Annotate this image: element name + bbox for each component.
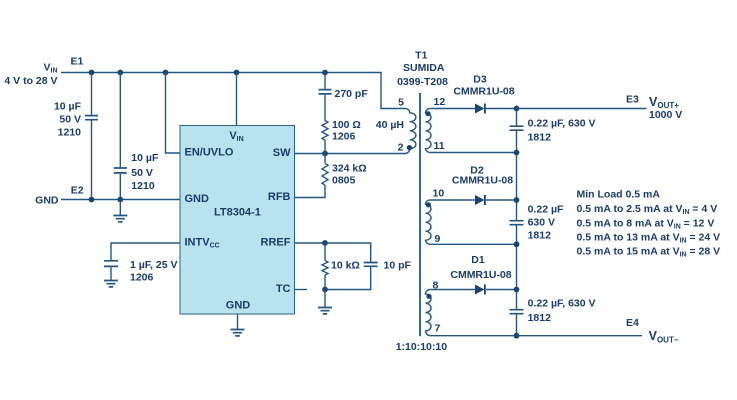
wire RFB <box>295 185 326 198</box>
svg-text:1812: 1812 <box>528 230 552 242</box>
diode D3 <box>475 104 485 114</box>
ground symbol below GND rail <box>113 200 127 222</box>
wire D1 to rail <box>486 289 517 291</box>
svg-text:TC: TC <box>276 283 291 295</box>
diode D2 <box>475 195 485 205</box>
wire: GND rail <box>61 199 180 201</box>
svg-text:0.22 µF: 0.22 µF <box>528 204 564 216</box>
svg-text:0.5 mA to 2.5 mA at VIN = 4 V: 0.5 mA to 2.5 mA at VIN = 4 V <box>577 203 718 216</box>
diode D1 <box>475 285 485 295</box>
S3 phase dot <box>425 111 430 116</box>
wire VIN pin drop <box>236 73 238 126</box>
wire pin9 to rail <box>430 243 516 245</box>
wire 10pF branch <box>325 243 371 290</box>
svg-text:1 µF, 25 V: 1 µF, 25 V <box>130 259 178 271</box>
junction dot RREF top <box>322 240 328 246</box>
svg-text:10 µF: 10 µF <box>54 101 82 113</box>
wire EN/UVLO from rail <box>166 73 181 154</box>
wire SW node down <box>324 154 326 164</box>
primary phase dot <box>407 145 412 150</box>
svg-text:D1: D1 <box>471 254 485 266</box>
junction dot E4 <box>514 333 520 339</box>
S1 phase dot <box>426 294 431 299</box>
capacitor C1 plates <box>85 116 98 120</box>
svg-text:D3: D3 <box>473 73 487 85</box>
svg-text:100 Ω: 100 Ω <box>332 119 361 131</box>
S2 phase dot <box>426 202 431 207</box>
wire: VIN top rail <box>61 73 405 109</box>
wire INTVCC <box>111 243 180 260</box>
svg-text:0.5 mA to 15 mA at VIN = 28 V: 0.5 mA to 15 mA at VIN = 28 V <box>577 246 721 259</box>
svg-text:0.5 mA to 13 mA at VIN = 24 V: 0.5 mA to 13 mA at VIN = 24 V <box>577 232 721 245</box>
wire SW to transformer <box>295 153 406 155</box>
junction dot RREF bottom <box>322 287 328 293</box>
svg-text:RFB: RFB <box>268 191 291 203</box>
output stack rail <box>516 109 518 336</box>
svg-text:1210: 1210 <box>131 180 155 192</box>
svg-text:RREF: RREF <box>261 237 291 249</box>
svg-text:T1: T1 <box>415 50 427 62</box>
svg-text:VOUT+: VOUT+ <box>649 95 679 110</box>
junction dot pin11 <box>514 150 520 156</box>
junction dot E3 <box>514 106 520 112</box>
secondary winding S1 (pins 8/7) <box>425 290 431 336</box>
junction dot D2 <box>514 197 520 203</box>
junction dot rail/EN <box>163 70 169 76</box>
svg-text:10 pF: 10 pF <box>384 260 412 272</box>
svg-text:CMMR1U-08: CMMR1U-08 <box>453 86 514 98</box>
svg-text:11: 11 <box>434 140 445 152</box>
svg-text:CMMR1U-08: CMMR1U-08 <box>452 174 513 186</box>
junction dot gnd/C1 <box>89 197 95 203</box>
svg-text:1812: 1812 <box>528 312 552 324</box>
wire TC stub <box>295 289 308 291</box>
svg-text:5: 5 <box>398 97 404 109</box>
svg-text:0.5 mA to 8 mA at VIN = 12 V: 0.5 mA to 8 mA at VIN = 12 V <box>577 218 715 231</box>
primary winding <box>405 109 416 154</box>
svg-text:7: 7 <box>435 323 441 335</box>
svg-text:1206: 1206 <box>332 131 356 143</box>
wire RREF node down <box>324 243 326 261</box>
resistor 100 ohm zigzag <box>322 121 328 141</box>
svg-text:630 V: 630 V <box>528 217 555 229</box>
svg-text:1210: 1210 <box>58 127 82 139</box>
wire snubber top <box>324 73 326 89</box>
svg-text:CMMR1U-08: CMMR1U-08 <box>450 269 511 281</box>
svg-text:1000 V: 1000 V <box>649 109 682 121</box>
svg-text:SUMIDA: SUMIDA <box>403 62 445 74</box>
wire resistor to SW node <box>324 140 326 153</box>
wire RREF <box>295 242 326 244</box>
capacitor C1 10uF wires <box>91 73 93 200</box>
svg-text:10 µF: 10 µF <box>131 152 159 164</box>
capacitor C3 0.22uF plates <box>510 126 524 130</box>
secondary winding S2 (pins 10/9) <box>426 200 432 244</box>
capacitor C2 10uF wires <box>119 73 121 200</box>
wire pin12 to D3 <box>430 108 475 110</box>
svg-text:LT8304-1: LT8304-1 <box>214 207 261 219</box>
junction dot pin9 <box>514 241 520 247</box>
svg-text:E3: E3 <box>626 94 639 106</box>
wire pin7 to rail <box>430 335 516 337</box>
junction dot D1 <box>514 287 520 293</box>
svg-text:VOUT−: VOUT− <box>649 329 679 344</box>
secondary winding S3 (pins 12/11) <box>426 109 432 153</box>
svg-text:50 V: 50 V <box>59 114 81 126</box>
wire pin11 to rail <box>430 152 516 154</box>
resistor 10k zigzag <box>322 261 328 276</box>
junction dot rail/C2 <box>117 70 123 76</box>
svg-text:Min Load 0.5 mA: Min Load 0.5 mA <box>577 189 661 201</box>
op-amp U1 LT8304-1 body <box>180 126 295 315</box>
junction dot gnd/C2 <box>117 197 123 203</box>
resistor 324k zigzag <box>322 164 328 185</box>
svg-text:4 V to 28 V: 4 V to 28 V <box>4 75 57 87</box>
capacitor 10pF plates <box>364 263 378 267</box>
capacitor C1s 0.22uF plates <box>510 310 524 314</box>
capacitor C2s 0.22uF plates <box>510 221 524 225</box>
svg-text:SW: SW <box>273 147 291 159</box>
wire D2 to rail <box>486 199 517 201</box>
svg-text:0399-T208: 0399-T208 <box>397 76 448 88</box>
svg-text:VIN: VIN <box>43 62 57 75</box>
svg-text:270 pF: 270 pF <box>335 88 369 100</box>
junction dot rail/VIN pin <box>234 70 240 76</box>
svg-text:2: 2 <box>398 142 404 154</box>
capacitor C2 plates <box>114 168 127 173</box>
svg-text:324 kΩ: 324 kΩ <box>332 163 367 175</box>
wire D3 to rail <box>486 108 517 110</box>
svg-text:GND: GND <box>185 193 210 205</box>
capacitor 1uF plates <box>104 261 118 267</box>
svg-text:GND: GND <box>226 300 251 312</box>
wire cap to resistor <box>324 95 326 121</box>
wire pin10 to D2 <box>430 199 475 201</box>
transformer core <box>419 93 421 336</box>
svg-text:10 kΩ: 10 kΩ <box>331 260 360 272</box>
svg-text:E2: E2 <box>71 185 84 197</box>
ground symbol RREF <box>318 290 332 314</box>
junction dot rail/C1 <box>89 70 95 76</box>
capacitor 270pF plates <box>319 90 332 94</box>
wire 10k to bottom node <box>324 275 326 290</box>
svg-text:50 V: 50 V <box>131 167 153 179</box>
wire pin8 to D1 <box>430 289 475 291</box>
svg-text:12: 12 <box>434 96 446 108</box>
svg-text:E1: E1 <box>71 56 84 68</box>
svg-text:0805: 0805 <box>332 175 356 187</box>
IC bottom ground stem <box>237 314 239 329</box>
junction dot rail/snubber <box>322 70 328 76</box>
svg-text:1:10:10:10: 1:10:10:10 <box>396 341 448 353</box>
svg-text:E4: E4 <box>626 317 639 329</box>
junction dot SW/snubber <box>322 151 328 157</box>
svg-text:GND: GND <box>35 195 59 207</box>
wire E4 output <box>517 335 643 337</box>
svg-text:EN/UVLO: EN/UVLO <box>185 147 234 159</box>
capacitor 1uF stem <box>110 267 112 280</box>
svg-text:9: 9 <box>435 233 441 245</box>
IC bottom ground symbol <box>231 330 245 336</box>
wire E3 output <box>517 108 647 110</box>
svg-text:0.22 µF, 630 V: 0.22 µF, 630 V <box>528 118 596 130</box>
svg-text:0.22 µF, 630 V: 0.22 µF, 630 V <box>528 298 596 310</box>
svg-text:1206: 1206 <box>130 272 154 284</box>
svg-text:1812: 1812 <box>528 132 552 144</box>
ground symbol 1uF <box>104 281 118 287</box>
svg-text:40 µH: 40 µH <box>376 119 404 131</box>
svg-text:10: 10 <box>433 188 445 200</box>
min load text block <box>577 189 721 259</box>
